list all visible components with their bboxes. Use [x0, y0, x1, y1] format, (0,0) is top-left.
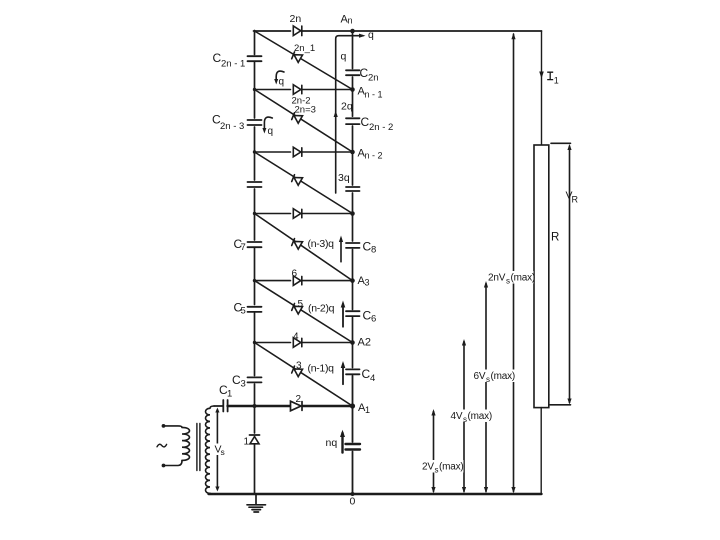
transformer primary terminal bottom — [162, 464, 166, 468]
junction left row1 — [253, 88, 256, 91]
diode 2n bar — [301, 26, 303, 36]
svg-text:2n - 3: 2n - 3 — [220, 121, 244, 132]
diode row2 bar — [301, 148, 303, 156]
diode 7 bar — [292, 239, 295, 246]
transformer primary lead bottom — [164, 460, 183, 465]
VR bracket bottom — [550, 404, 571, 406]
capacitor C2 — [346, 444, 361, 450]
label I1 — [547, 72, 553, 79]
svg-text:q: q — [368, 29, 374, 41]
svg-text:n: n — [348, 16, 353, 26]
svg-text:3: 3 — [241, 379, 246, 390]
svg-text:R: R — [551, 232, 559, 244]
diode 6 bar — [301, 276, 303, 284]
svg-text:2: 2 — [296, 394, 302, 405]
svg-text:6: 6 — [371, 314, 376, 325]
label Vs — [214, 444, 224, 456]
voltage arrow 2nVs — [513, 34, 515, 492]
charge hook arrow q upper head — [274, 79, 278, 85]
capacitor C2n-3 — [248, 120, 262, 125]
svg-text:n - 1: n - 1 — [365, 90, 383, 100]
svg-text:0: 0 — [350, 496, 356, 508]
charge arrow (n-2)q head — [341, 301, 346, 308]
wire resistor to bottom rail — [540, 408, 542, 494]
svg-text:2n: 2n — [290, 13, 302, 25]
svg-text:(max): (max) — [439, 462, 464, 473]
diode diag row2-3 bar — [292, 175, 295, 182]
diode 2n — [293, 26, 301, 36]
diagonal 2-3 — [255, 152, 353, 214]
capacitor C1 — [214, 400, 228, 412]
svg-text:s: s — [486, 375, 490, 384]
charge arrow (n-1)q — [342, 364, 344, 384]
svg-text:1: 1 — [244, 437, 250, 448]
wire left column segment top — [254, 31, 256, 55]
voltage arrow 2nVs heads — [511, 33, 515, 494]
capacitor C6 — [346, 311, 360, 316]
charge arrow (n-2)q — [342, 304, 344, 327]
wire row3 — [255, 213, 353, 215]
svg-text:q: q — [268, 126, 274, 137]
Vs arrowhead bottom — [215, 487, 219, 492]
svg-text:3: 3 — [365, 278, 370, 288]
VR bracket top — [551, 142, 571, 144]
svg-text:5: 5 — [241, 306, 246, 317]
svg-text:2n_1: 2n_1 — [294, 43, 315, 54]
transformer core — [197, 424, 200, 471]
diode 4 bar — [301, 338, 303, 346]
svg-text:R: R — [572, 195, 579, 205]
wire right column seg 6 — [352, 318, 354, 368]
VR arrowhead top — [567, 144, 571, 150]
svg-text:q: q — [279, 77, 285, 88]
junction left row3 — [253, 212, 256, 215]
junction left row4 — [253, 279, 256, 282]
voltage arrow 4Vs heads — [462, 339, 466, 493]
diagonal 1-2 — [255, 90, 353, 153]
wire row5 — [255, 342, 353, 344]
svg-text:5: 5 — [298, 299, 304, 310]
svg-text:8: 8 — [371, 245, 376, 256]
svg-text:(n-2)q: (n-2)q — [308, 303, 335, 315]
svg-text:1: 1 — [227, 389, 232, 400]
svg-text:(max): (max) — [491, 371, 516, 382]
diode 3 — [294, 369, 303, 377]
capacitor right unnamed — [346, 187, 360, 191]
diode 3 bar — [292, 366, 295, 373]
charge arrow nq head — [340, 430, 345, 437]
diode D1 bar — [250, 434, 260, 436]
diode diag row2-3 — [294, 178, 303, 186]
svg-text:1: 1 — [554, 76, 559, 86]
svg-text:3: 3 — [296, 361, 302, 372]
wire right column seg 4 — [352, 193, 354, 241]
Vs arrowhead top — [215, 408, 219, 413]
wire right column seg 2 — [352, 77, 354, 116]
capacitor left unnamed — [248, 182, 262, 187]
diode 2n-2 — [293, 85, 301, 95]
voltage arrow 6Vs heads — [484, 281, 488, 493]
wire row2 — [255, 151, 353, 153]
svg-text:4: 4 — [370, 373, 375, 384]
charge arrow (n-3)q head — [339, 236, 343, 243]
svg-text:2n=3: 2n=3 — [295, 105, 316, 116]
charge hook arrow q upper — [276, 71, 284, 81]
wire row6 A1 row — [228, 405, 353, 407]
wire left column seg 6 — [254, 313, 256, 376]
wire left column seg 5 — [254, 249, 256, 305]
svg-text:A2: A2 — [358, 337, 371, 349]
wire left column seg 3 — [254, 127, 256, 180]
svg-text:4: 4 — [293, 332, 299, 343]
charge arrow (n-3)q — [340, 239, 342, 262]
label 6Vs(max) — [473, 370, 515, 385]
wire bottom rail — [209, 493, 542, 495]
capacitor C8 — [346, 243, 360, 248]
svg-text:1: 1 — [365, 405, 370, 415]
voltage arrow 2Vs — [433, 412, 435, 492]
node An-2 — [350, 150, 355, 155]
junction left row2 — [253, 150, 256, 153]
diagonal 4-5 — [255, 281, 353, 343]
charge arrow up head mid — [334, 111, 338, 118]
transformer secondary winding — [206, 406, 215, 494]
svg-text:s: s — [435, 466, 439, 475]
junction right bottom 0 — [351, 492, 355, 496]
svg-text:s: s — [221, 447, 225, 457]
svg-text:2q: 2q — [341, 101, 353, 113]
charge arrow nq — [341, 433, 343, 453]
capacitor C2n — [346, 70, 360, 75]
node A3 — [350, 278, 355, 283]
diagonal 5-6 — [255, 343, 353, 407]
svg-text:4V: 4V — [451, 411, 463, 422]
diode 2 — [291, 401, 302, 411]
diode row3 — [293, 209, 301, 219]
svg-text:q: q — [341, 51, 347, 63]
capacitor C7 — [248, 242, 262, 247]
diode 2n-3 — [294, 116, 303, 124]
Vs arrow — [216, 410, 218, 489]
transformer primary terminal top — [162, 424, 166, 428]
svg-text:s: s — [463, 415, 467, 424]
charge arrow q top — [336, 36, 363, 193]
junction left row6 C1 — [253, 404, 257, 408]
charge hook arrow q lower — [264, 117, 272, 130]
wire left column seg 8 — [254, 444, 256, 494]
capacitor C2n-1 — [248, 56, 262, 61]
I1 arrowhead — [539, 72, 544, 79]
transformer primary winding — [182, 427, 190, 460]
wire row1 — [255, 89, 353, 91]
charge hook arrow q lower head — [262, 128, 266, 134]
voltage arrow 4Vs — [463, 342, 465, 492]
svg-text:2n - 2: 2n - 2 — [369, 122, 393, 133]
svg-text:(max): (max) — [468, 411, 493, 422]
wire right column seg 5 — [352, 250, 354, 310]
node An-1 — [350, 87, 355, 92]
capacitor C5 — [248, 307, 262, 312]
node An — [350, 29, 355, 34]
diode 5 bar — [292, 304, 295, 311]
charge arrow (n-1)q head — [341, 361, 346, 368]
voltage arrow 6Vs — [485, 284, 487, 492]
diode row2 — [293, 147, 301, 157]
node A2 — [350, 340, 355, 345]
svg-text:2nV: 2nV — [488, 273, 506, 284]
svg-text:(max): (max) — [511, 273, 536, 284]
label 2nVs(max) — [488, 271, 536, 286]
charge arrow q top head — [359, 34, 366, 38]
node row3 — [350, 211, 355, 216]
diode 5 — [294, 306, 303, 314]
diode row3 bar — [301, 209, 303, 217]
capacitor C2n-2 — [346, 118, 360, 124]
wire left column seg 7 — [254, 384, 256, 433]
diode 2n-1 bar — [292, 52, 295, 59]
wire top rail row0 — [254, 30, 542, 32]
wire top right drop — [541, 31, 543, 145]
svg-text:s: s — [506, 277, 510, 286]
VR arrow — [569, 146, 571, 403]
wire left column seg 2 — [254, 63, 256, 119]
svg-text:n - 2: n - 2 — [365, 151, 383, 161]
diode 2n-1 — [294, 55, 303, 63]
node A1 — [350, 403, 355, 408]
svg-text:(n-1)q: (n-1)q — [308, 363, 335, 375]
diode D1 — [250, 437, 259, 444]
diode 7 — [294, 241, 303, 249]
diode 2n-3 bar — [292, 113, 295, 120]
wire right column seg 1 — [352, 31, 354, 69]
wire right column seg 8 — [352, 452, 354, 495]
diode 6 — [293, 276, 301, 286]
wire C1 to left column — [228, 405, 255, 407]
svg-text:3q: 3q — [338, 172, 350, 184]
junction left row5 — [253, 341, 256, 344]
VR arrowhead bottom — [567, 399, 571, 405]
diode 4 — [293, 338, 301, 348]
wire left column seg 4 — [254, 189, 256, 240]
capacitor C3 — [248, 377, 262, 382]
svg-text:2V: 2V — [422, 462, 434, 473]
capacitor C4 — [346, 369, 360, 374]
diode 2n-2 bar — [301, 85, 303, 93]
svg-text:7: 7 — [241, 242, 246, 253]
svg-text:(n-3)q: (n-3)q — [308, 238, 335, 250]
svg-text:6V: 6V — [474, 371, 486, 382]
wire right column seg 3 — [352, 126, 354, 185]
ground — [247, 494, 266, 512]
svg-text:2n - 1: 2n - 1 — [221, 59, 245, 70]
wire row4 — [255, 280, 353, 282]
wire right column seg 7 — [352, 376, 354, 442]
transformer primary lead top — [164, 426, 183, 428]
svg-text:6: 6 — [292, 269, 298, 280]
svg-text:nq: nq — [326, 437, 338, 449]
diode 2 bar — [301, 402, 303, 411]
label 4Vs(max) — [450, 410, 492, 425]
label 2Vs(max) — [422, 460, 464, 475]
svg-text:2n: 2n — [368, 73, 379, 84]
ac source symbol — [157, 444, 167, 447]
resistor R body — [534, 145, 549, 408]
voltage arrow 2Vs heads — [431, 409, 435, 493]
diagonal 0-1 — [255, 31, 353, 90]
diagonal 3-4 — [255, 214, 353, 281]
